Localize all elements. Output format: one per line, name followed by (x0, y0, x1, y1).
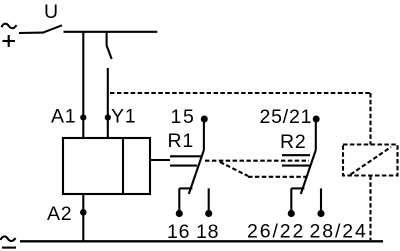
wire: A2 vertical (82, 194, 84, 241)
svg-text:R1: R1 (168, 130, 195, 152)
wire: coil to R1 actuator link (150, 159, 170, 161)
terminal 15 dot (201, 116, 208, 123)
dashed vertical: top link down to output relay (369, 93, 371, 145)
contact Y1 upper lead (106, 32, 108, 46)
AC/plus supply symbol top-left (2, 24, 17, 47)
actuator flag R1 bottom line (170, 165, 197, 167)
svg-text:U: U (44, 1, 59, 23)
dashed link: Y1 to output relay (110, 92, 371, 94)
terminal 25/21 lead (315, 120, 317, 150)
switch U blade (43, 25, 63, 33)
contact R1 blade (189, 150, 204, 194)
contact 26/22 seat horizontal (291, 187, 304, 189)
terminal 28/24 dot (317, 210, 324, 217)
terminal 18 dot (205, 210, 212, 217)
terminal 28/24 lead (320, 188, 322, 210)
node A1 junction dot (80, 114, 86, 120)
svg-text:16: 16 (167, 221, 190, 243)
terminal 15 lead (203, 120, 205, 150)
contact 16 seat vertical (178, 188, 180, 210)
svg-text:R2: R2 (280, 131, 307, 153)
svg-text:26/22: 26/22 (247, 221, 305, 243)
dashed link: diagonal branch (220, 162, 248, 176)
actuator flag R2 top line (282, 154, 310, 156)
relay coil box A1-A2 (63, 138, 150, 194)
svg-text:A2: A2 (47, 203, 72, 225)
AC/minus supply symbol bottom-left (1, 236, 17, 247)
output relay dashed box (343, 145, 398, 176)
wire: bottom rail (20, 240, 383, 242)
svg-text:18: 18 (196, 221, 219, 243)
wire: top rail (64, 31, 158, 33)
node Y1 junction dot (105, 114, 111, 120)
actuator flag R1 top line (170, 155, 201, 157)
terminal 18 lead (208, 188, 210, 210)
svg-text:25/21: 25/21 (260, 106, 313, 128)
svg-text:Y1: Y1 (111, 106, 136, 128)
coil box divider (122, 138, 124, 194)
contact Y1 blade (107, 46, 112, 60)
terminal 26/22 dot (288, 210, 295, 217)
contact 16 seat horizontal (179, 187, 192, 189)
actuator flag R2 bottom line (282, 165, 310, 167)
wire: supply feed to switch U (19, 32, 43, 35)
svg-text:28/24: 28/24 (310, 221, 368, 243)
node A2 junction dot (80, 209, 87, 216)
contact 26/22 seat vertical (290, 188, 292, 210)
output relay dashed diagonal (351, 147, 392, 175)
dashed link: R1 blade to R2 flag (205, 160, 309, 162)
svg-text:15: 15 (171, 106, 196, 128)
terminal 16 dot (176, 210, 183, 217)
contact R2 blade (301, 150, 316, 194)
terminal 25/21 dot (313, 116, 320, 123)
wire: A1 vertical (82, 32, 84, 139)
wire: Y1 vertical (107, 68, 109, 139)
svg-text:A1: A1 (51, 106, 76, 128)
dashed vertical: output relay to bottom rail (369, 176, 371, 241)
dashed link: to R2 blade (248, 176, 306, 178)
